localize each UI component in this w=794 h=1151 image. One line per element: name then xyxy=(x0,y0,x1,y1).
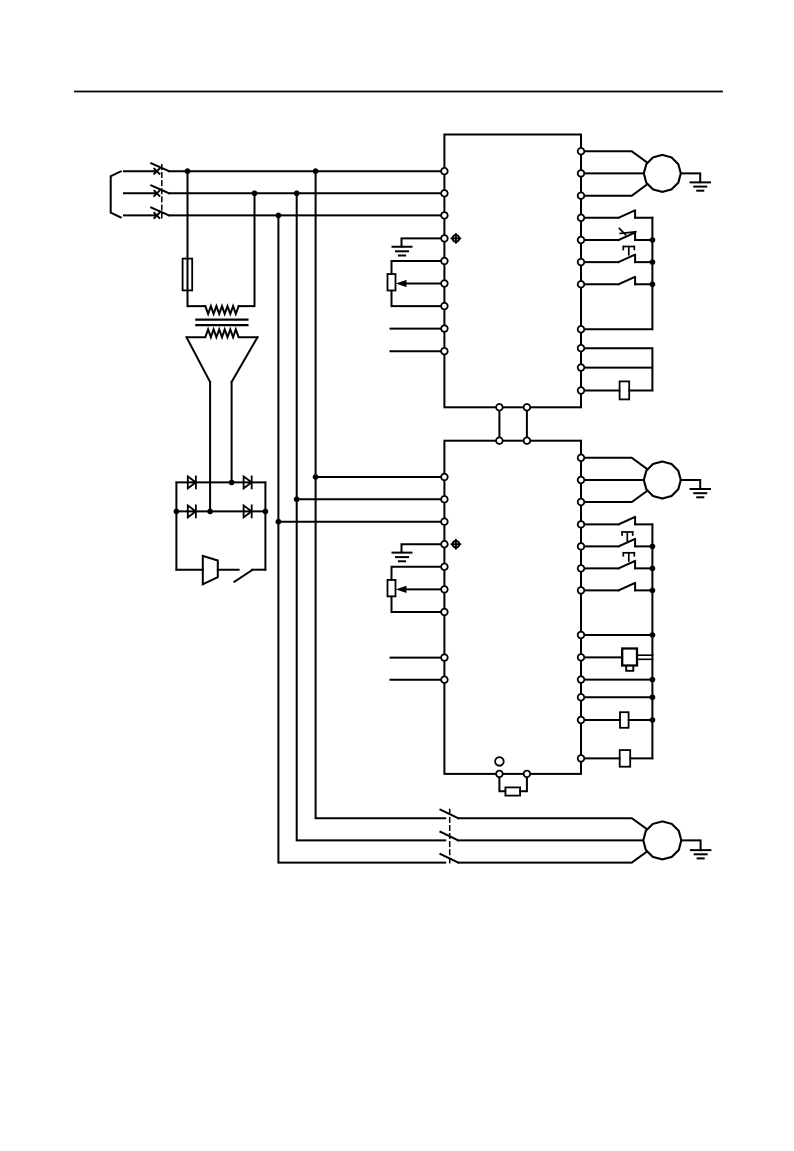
diode D4 xyxy=(244,505,252,517)
bypass switch blade phase 3 xyxy=(440,854,458,863)
inverter U1 enclosure xyxy=(444,135,581,408)
wire U1 relay output loop xyxy=(581,348,652,390)
node U2 bus row10 xyxy=(650,677,656,683)
protective earth symbol U2 xyxy=(452,540,461,549)
wire funnel right slope xyxy=(232,337,258,382)
potentiometer U1 wiper arrow xyxy=(396,280,445,287)
resistor R2 xyxy=(620,381,630,399)
node U2 bus row4 xyxy=(650,588,656,594)
U2 right terminal pins xyxy=(578,455,585,762)
wire U1 terminal stub 8 xyxy=(391,328,445,330)
U2 bottom terminal pins xyxy=(496,771,530,778)
wire U2 thermistor lead xyxy=(581,656,622,658)
node bridge mid row left edge xyxy=(174,509,180,515)
wire U2 control common bus xyxy=(651,524,653,758)
potentiometer U2 body xyxy=(388,567,445,612)
wire DC feeder right vertical xyxy=(231,382,233,482)
potentiometer U1 body xyxy=(388,261,445,306)
U1 bottom DC terminal pins xyxy=(496,404,530,411)
wire U2 motor phase V xyxy=(581,479,644,481)
breaker contact mark phase L3 xyxy=(154,213,159,218)
wire L1 left stub xyxy=(124,170,156,172)
motor M-U2 xyxy=(644,462,681,499)
ground symbol at U2 control xyxy=(393,544,445,561)
wire motor U2 to earth xyxy=(681,480,700,489)
wire transformer primary right xyxy=(239,193,255,306)
node L1 feeder to U2 xyxy=(313,474,319,480)
disconnect switch blade Q1a xyxy=(151,163,169,171)
wire R5 to bus xyxy=(630,757,652,759)
potentiometer U2 wiper arrow xyxy=(396,586,445,593)
wire resistor R2 to loop xyxy=(629,390,652,392)
diode D1 xyxy=(188,476,196,488)
horn annunciator H1 xyxy=(203,556,218,584)
node U1 bus row2 xyxy=(650,237,656,243)
wire fuse branch vertical xyxy=(187,171,189,306)
thermistor module RT1 xyxy=(622,649,637,671)
switch row U1-S1 xyxy=(581,247,652,263)
ground symbol U1 motor xyxy=(691,182,711,190)
U1 left terminal pins xyxy=(441,168,448,355)
transformer T1 secondary winding xyxy=(187,329,258,337)
wire DC link U1-U2 right xyxy=(526,407,528,440)
disconnect switch blade Q1c xyxy=(151,208,169,216)
U2 top DC terminal pins xyxy=(496,437,530,444)
switch row U1-K2 xyxy=(581,229,652,241)
motor M-U1 xyxy=(644,155,681,192)
wire U1 motor phase V xyxy=(581,172,644,174)
bypass switch blade phase 1 xyxy=(440,810,458,819)
transformer T1 core xyxy=(196,320,247,326)
ground symbol U2 motor xyxy=(691,489,711,497)
wire L1 branch to U2 input xyxy=(316,476,445,478)
rectifier bridge left edge xyxy=(175,482,177,569)
inverter U2 enclosure xyxy=(444,441,581,774)
node L2 down-feeder junction xyxy=(294,190,300,196)
knockout hole above U2 bottom terminal xyxy=(495,757,504,766)
node U2 bus row2 xyxy=(650,544,656,550)
wire bypass to motor M3 phase 3 xyxy=(458,852,647,863)
disconnect switch blade Q1b xyxy=(151,185,169,193)
node U2 bus row3 xyxy=(650,566,656,572)
node bridge mid row / DC left feeder xyxy=(207,509,213,515)
node U1 bus row3 xyxy=(650,259,656,265)
wire U2 resistor row 12 lead xyxy=(581,719,620,721)
resistor R4 xyxy=(620,712,629,728)
resistor R5 xyxy=(620,750,631,767)
wire L3 branch to U2 input xyxy=(278,521,444,523)
wire U2 terminal stub 8 xyxy=(391,657,445,659)
switch row U2-S1 xyxy=(581,553,652,569)
wire bypass to motor M3 phase 1 xyxy=(458,818,647,829)
switch Q1 linkage (dashed) xyxy=(161,165,163,221)
wire bypass to motor M3 phase 2 xyxy=(458,839,643,841)
wire U2 output row 11 xyxy=(581,696,652,698)
feeder wire L1 vertical xyxy=(316,171,446,818)
wire motor U1 to earth xyxy=(681,173,700,182)
wire U2 motor phase U xyxy=(581,458,648,470)
diode D3 xyxy=(188,505,196,517)
wire L1 to U1 xyxy=(169,170,444,172)
wire R4 to bus xyxy=(629,719,653,721)
wire U1 resistor row lead xyxy=(581,390,620,392)
node L2 feeder to U2 xyxy=(294,496,300,502)
wire U1 terminal stub 9 xyxy=(391,350,445,352)
transformer T1 primary winding xyxy=(205,306,238,314)
wire L3 left stub xyxy=(124,214,156,216)
node U2 bus row12 xyxy=(650,717,656,723)
service entrance bracket xyxy=(111,171,121,217)
node L3 feeder to U2 xyxy=(276,519,282,525)
bridge bottom wire right xyxy=(252,569,265,571)
rectifier bridge top row wire xyxy=(176,481,265,483)
wire U2 motor phase W xyxy=(581,491,648,502)
wire U2 resistor row 13 lead xyxy=(581,757,620,759)
switch row U1-K3 xyxy=(581,277,652,284)
switch row U2-K2 xyxy=(581,532,652,546)
node U1 bus row4 xyxy=(650,281,656,287)
node U2 bus row11 xyxy=(650,694,656,700)
wire U1 motor phase U xyxy=(581,151,648,162)
bridge bottom wire middle xyxy=(218,569,239,571)
wire funnel left slope xyxy=(187,337,211,382)
node L1-fuse junction xyxy=(185,168,191,174)
U1 right terminal pins xyxy=(578,148,585,394)
protective earth symbol U1 xyxy=(452,234,461,243)
wire L2 left stub xyxy=(124,192,156,194)
node L2 transformer junction xyxy=(252,190,258,196)
wire L2 branch to U2 input xyxy=(297,498,445,500)
bypass switch linkage (dashed) xyxy=(449,810,451,863)
feeder wire L2 vertical xyxy=(297,193,446,840)
diode D2 xyxy=(244,476,252,488)
wire L2 to U1 xyxy=(169,192,444,194)
switch row U2-K1 xyxy=(581,517,652,524)
ground symbol M3 xyxy=(691,850,711,858)
breaker contact mark phase L2 xyxy=(154,191,159,196)
wire DC link U1-U2 left xyxy=(498,407,500,440)
switch S2 blade xyxy=(234,570,252,582)
switch row U1-K1 xyxy=(581,210,652,217)
breaker contact mark phase L1 xyxy=(154,169,159,174)
switch row U2-K3 xyxy=(581,583,652,590)
bypass switch blade phase 2 xyxy=(440,832,458,841)
wire RT1 double link to bus xyxy=(637,655,653,659)
wire motor M3 to earth xyxy=(681,840,700,850)
wire L3 to U1 xyxy=(169,214,444,216)
motor M3 xyxy=(643,821,681,859)
wire U1 control common bus xyxy=(581,218,652,329)
rectifier bridge right edge xyxy=(264,482,266,569)
ground symbol at U1 control xyxy=(393,238,445,255)
wire DC feeder left vertical xyxy=(209,382,211,511)
bridge bottom wire left xyxy=(176,569,202,571)
wire U2 output row 8 xyxy=(581,634,652,636)
node L3 down-feeder junction xyxy=(276,213,282,219)
brake resistor R6 loop xyxy=(499,774,527,796)
rectifier bridge middle row wire xyxy=(176,510,265,512)
feeder wire L3 vertical xyxy=(278,215,445,862)
node bridge top row / DC right feeder xyxy=(229,480,235,486)
wire U1 relay output mid xyxy=(581,367,652,369)
node L1 down-feeder junction xyxy=(313,168,319,174)
wire U1 motor phase W xyxy=(581,184,648,196)
wire U2 terminal stub 9 xyxy=(391,679,445,681)
wire transformer primary left xyxy=(188,305,206,307)
top rule xyxy=(75,91,722,93)
node bridge mid row right edge xyxy=(263,509,269,515)
U2 left terminal pins xyxy=(441,474,448,683)
fuse F1 xyxy=(183,259,193,291)
wire U2 output row 10 xyxy=(581,679,652,681)
node U2 bus row8 xyxy=(650,632,656,638)
